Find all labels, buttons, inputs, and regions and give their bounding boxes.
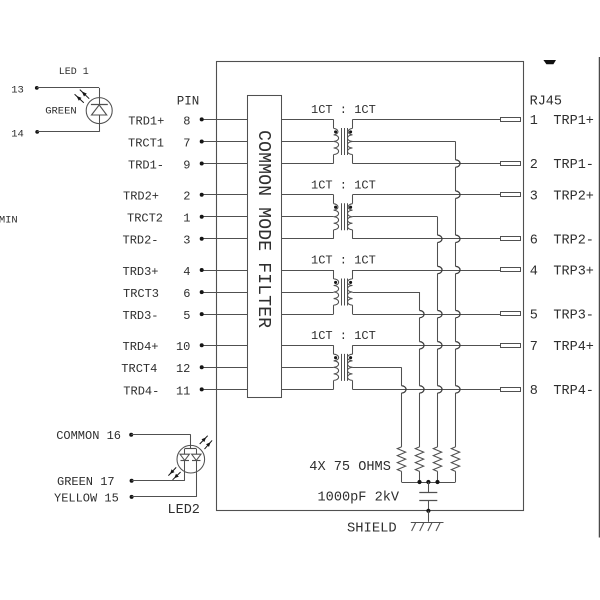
svg-text:5: 5: [183, 309, 190, 323]
LED LED1 (green): [86, 98, 112, 124]
svg-text:1: 1: [530, 114, 538, 129]
svg-text:TRP3+: TRP3+: [553, 265, 594, 280]
svg-text:COMMON 16: COMMON 16: [56, 429, 121, 443]
wire hop at x=420 over y=345: [420, 342, 425, 349]
chassis ground (shield): [411, 522, 444, 524]
junction dot bus R2: [435, 480, 439, 484]
wire pin 17 to LED2: [132, 480, 185, 482]
transformer T1 primary winding: [333, 119, 335, 128]
svg-text:4: 4: [183, 265, 190, 279]
wire T2 secondary center tap: [353, 216, 438, 218]
wire hop at x=420 over y=314: [420, 310, 425, 317]
transformer T3 secondary winding: [352, 270, 354, 279]
resistor R4 75 ohms: [397, 447, 405, 472]
wire hop at x=456 over y=389: [456, 386, 461, 393]
svg-text:TRP4+: TRP4+: [553, 340, 594, 355]
transformer T1 secondary winding: [352, 119, 354, 128]
svg-text:4: 4: [530, 265, 538, 280]
junction dot TRD3-: [200, 312, 204, 316]
wire hop at x=438 over y=389: [438, 386, 443, 393]
LED2 emission arrows upper: [200, 436, 208, 444]
svg-text:TRP4-: TRP4-: [553, 384, 594, 399]
svg-text:SHIELD: SHIELD: [347, 521, 397, 536]
wire R3 bottom lead: [419, 471, 421, 482]
resistor R2 75 ohms: [433, 447, 441, 472]
wire shield stub: [428, 511, 430, 522]
wire TRD1+ left of filter: [202, 119, 248, 121]
black wedge mark (cut-off symbol): [543, 60, 556, 64]
wire TRD2+ filter to transformer: [281, 194, 333, 196]
wire TRCT1 left of filter: [202, 141, 248, 143]
wire termination bus: [402, 482, 456, 484]
terminal RJ45 pin 6: [501, 237, 521, 241]
svg-text:8: 8: [183, 114, 190, 128]
junction dot TRCT4: [200, 365, 204, 369]
wire TRD4- filter to transformer: [281, 389, 333, 391]
wire TRP3+ to RJ45 pin 4: [353, 270, 502, 272]
svg-text:8: 8: [530, 384, 538, 399]
transformer T3 core: [341, 279, 343, 306]
svg-text:7: 7: [530, 340, 538, 355]
wire TRD3- left of filter: [202, 314, 248, 316]
junction dot pin 17: [130, 479, 134, 483]
transformer T2 primary winding: [333, 195, 335, 204]
svg-text:RJ45: RJ45: [530, 94, 562, 109]
svg-text:1: 1: [183, 212, 190, 226]
capacitor C1 1000pF 2kV: [428, 482, 430, 492]
wire hop at x=456 over y=239: [456, 235, 461, 242]
svg-text:TRD3+: TRD3+: [123, 265, 159, 279]
wire T3 secondary center tap: [353, 292, 420, 294]
svg-text:TRCT4: TRCT4: [121, 362, 157, 376]
transformer T4 primary polarity dot: [334, 356, 337, 359]
svg-text:1000pF 2kV: 1000pF 2kV: [318, 490, 400, 505]
wire pin 14 to LED1: [37, 131, 99, 133]
wire hop at x=420 over y=389: [420, 386, 425, 393]
junction dot shield: [426, 509, 430, 513]
svg-text:TRD4-: TRD4-: [123, 384, 159, 398]
LED2 emission arrows lower: [168, 467, 176, 475]
wire hop at x=402 over y=389: [402, 386, 407, 393]
svg-text:TRP1+: TRP1+: [553, 114, 594, 129]
wire hop at x=456 over y=195: [456, 191, 461, 198]
svg-text:4X 75 OHMS: 4X 75 OHMS: [309, 460, 391, 475]
svg-text:2: 2: [530, 158, 538, 173]
svg-text:GREEN: GREEN: [45, 105, 77, 117]
junction dot TRD4-: [200, 387, 204, 391]
junction dot pin 15: [130, 495, 134, 499]
wire TRD2- left of filter: [202, 238, 248, 240]
transformer T2 primary polarity dot: [334, 206, 337, 209]
transformer T2 secondary winding: [352, 195, 354, 204]
svg-text:YELLOW 15: YELLOW 15: [54, 492, 119, 506]
junction dot TRD2+: [200, 193, 204, 197]
wire R4 bottom lead: [401, 471, 403, 482]
transformer T1 primary polarity dot: [334, 130, 337, 133]
main module box: [217, 62, 524, 511]
wire TRCT2 filter to transformer: [281, 216, 333, 218]
wire TRP1+ to RJ45 pin 1: [353, 119, 502, 121]
wire TRD4+ left of filter: [202, 345, 248, 347]
svg-text:13: 13: [11, 84, 24, 96]
svg-text:7: 7: [183, 136, 190, 150]
svg-text:1CT : 1CT: 1CT : 1CT: [311, 329, 376, 343]
wire TRP4+ to RJ45 pin 7: [353, 345, 502, 347]
transformer T1 core: [341, 128, 343, 155]
transformer T4 secondary winding: [352, 345, 354, 354]
wire TRCT4 left of filter: [202, 367, 248, 369]
wire TRCT3 filter to transformer: [281, 292, 333, 294]
junction dot pin 14: [35, 130, 39, 134]
svg-text:6: 6: [183, 287, 190, 301]
svg-text:11: 11: [176, 384, 190, 398]
svg-text:TRCT3: TRCT3: [123, 287, 159, 301]
junction dot pin 16: [129, 433, 133, 437]
transformer T3 secondary polarity dot: [349, 281, 352, 284]
svg-text:LED2: LED2: [168, 503, 200, 518]
junction dot TRD3+: [200, 268, 204, 272]
svg-text:6: 6: [530, 233, 538, 248]
wire T4 secondary center tap: [353, 367, 402, 369]
svg-text:1CT : 1CT: 1CT : 1CT: [311, 178, 376, 192]
resistor R3 75 ohms: [415, 447, 423, 472]
wire TRCT1 filter to transformer: [281, 141, 333, 143]
wire TRD1+ filter to transformer: [281, 119, 333, 121]
wire T1 secondary center tap: [353, 141, 456, 143]
LED LED2 (bicolor green/yellow): [177, 445, 205, 473]
wire TRD4+ filter to transformer: [281, 345, 333, 347]
svg-text:GREEN 17: GREEN 17: [57, 475, 115, 489]
svg-text:TRD1+: TRD1+: [128, 114, 164, 128]
terminal RJ45 pin 3: [501, 193, 521, 197]
svg-text:TRD1-: TRD1-: [128, 158, 164, 172]
wire TRP1- to RJ45 pin 2: [353, 163, 502, 165]
junction dot bus R3: [417, 480, 421, 484]
svg-text:COMMON MODE FILTER: COMMON MODE FILTER: [253, 130, 273, 328]
terminal RJ45 pin 8: [501, 388, 521, 392]
wire R2 bottom lead: [437, 471, 439, 482]
terminal RJ45 pin 1: [501, 118, 521, 122]
svg-text:PIN: PIN: [177, 94, 200, 108]
transformer T2 secondary polarity dot: [349, 206, 352, 209]
common mode filter U1 box: [248, 96, 282, 398]
wire TRCT2 left of filter: [202, 216, 248, 218]
wire pin 15 to LED2: [132, 496, 197, 498]
wire R1 bottom lead: [455, 471, 457, 482]
transformer T3 primary winding: [333, 270, 335, 279]
svg-text:MIN: MIN: [0, 215, 18, 227]
wire TRP2- to RJ45 pin 6: [353, 238, 502, 240]
svg-text:TRP2+: TRP2+: [553, 189, 594, 204]
transformer T4 primary winding: [333, 345, 335, 354]
junction dot TRCT3: [200, 290, 204, 294]
svg-text:TRCT1: TRCT1: [128, 136, 164, 150]
junction dot TRD2-: [200, 237, 204, 241]
svg-text:TRP2-: TRP2-: [553, 233, 594, 248]
resistor R1 75 ohms: [451, 447, 459, 472]
wire pin 13 to LED1: [37, 87, 99, 89]
transformer T3 primary polarity dot: [334, 281, 337, 284]
transformer T2 core: [341, 203, 343, 230]
svg-text:TRD2+: TRD2+: [123, 190, 159, 204]
junction dot TRD4+: [200, 343, 204, 347]
wire TRD3+ filter to transformer: [281, 270, 333, 272]
svg-text:1CT : 1CT: 1CT : 1CT: [311, 254, 376, 268]
junction dot bus capacitor: [426, 480, 430, 484]
transformer T4 secondary polarity dot: [349, 356, 352, 359]
wire hop at x=438 over y=314: [438, 310, 443, 317]
junction dot TRD1+: [200, 117, 204, 121]
svg-text:9: 9: [183, 158, 190, 172]
svg-text:LED 1: LED 1: [59, 67, 89, 78]
wire hop at x=456 over y=345: [456, 342, 461, 349]
junction dot TRD1-: [200, 162, 204, 166]
terminal RJ45 pin 7: [501, 344, 521, 348]
junction dot TRCT2: [200, 215, 204, 219]
wire hop at x=456 over y=164: [456, 160, 461, 167]
svg-text:5: 5: [530, 309, 538, 324]
terminal RJ45 pin 2: [501, 162, 521, 166]
junction dot pin 13: [35, 86, 39, 90]
wire TRP4- to RJ45 pin 8: [353, 389, 502, 391]
wire TRCT3 left of filter: [202, 292, 248, 294]
wire hop at x=438 over y=270: [438, 266, 443, 273]
wire TRD3- filter to transformer: [281, 314, 333, 316]
wire TRD3+ left of filter: [202, 270, 248, 272]
svg-text:TRCT2: TRCT2: [127, 212, 163, 226]
transformer T1 secondary polarity dot: [349, 130, 352, 133]
svg-text:3: 3: [183, 234, 190, 248]
wire TRCT4 filter to transformer: [281, 367, 333, 369]
terminal RJ45 pin 5: [501, 312, 521, 316]
transformer T4 core: [341, 354, 343, 381]
wire hop at x=438 over y=239: [438, 235, 443, 242]
svg-text:TRD3-: TRD3-: [123, 309, 159, 323]
drawing border line (cut off): [599, 57, 600, 538]
wire TRD1- filter to transformer: [281, 163, 333, 165]
wire TRP3- to RJ45 pin 5: [353, 314, 502, 316]
svg-text:TRP1-: TRP1-: [553, 158, 594, 173]
wire TRD1- left of filter: [202, 163, 248, 165]
wire hop at x=438 over y=345: [438, 342, 443, 349]
wire TRD2- filter to transformer: [281, 238, 333, 240]
wire TRP2+ to RJ45 pin 3: [353, 194, 502, 196]
wire TRD4- left of filter: [202, 389, 248, 391]
wire TRD2+ left of filter: [202, 194, 248, 196]
svg-text:TRD4+: TRD4+: [123, 340, 159, 354]
junction dot TRCT1: [200, 140, 204, 144]
svg-text:1CT : 1CT: 1CT : 1CT: [311, 103, 376, 117]
svg-text:14: 14: [11, 129, 24, 141]
svg-text:2: 2: [183, 190, 190, 204]
LED1 emission arrows: [80, 90, 89, 99]
svg-text:12: 12: [176, 362, 190, 376]
svg-text:10: 10: [176, 340, 190, 354]
wire hop at x=456 over y=314: [456, 310, 461, 317]
svg-text:TRD2-: TRD2-: [123, 234, 159, 248]
wire hop at x=456 over y=270: [456, 266, 461, 273]
wire pin 16 to LED2: [131, 434, 191, 436]
terminal RJ45 pin 4: [501, 268, 521, 272]
svg-text:TRP3-: TRP3-: [553, 309, 594, 324]
svg-text:3: 3: [530, 189, 538, 204]
